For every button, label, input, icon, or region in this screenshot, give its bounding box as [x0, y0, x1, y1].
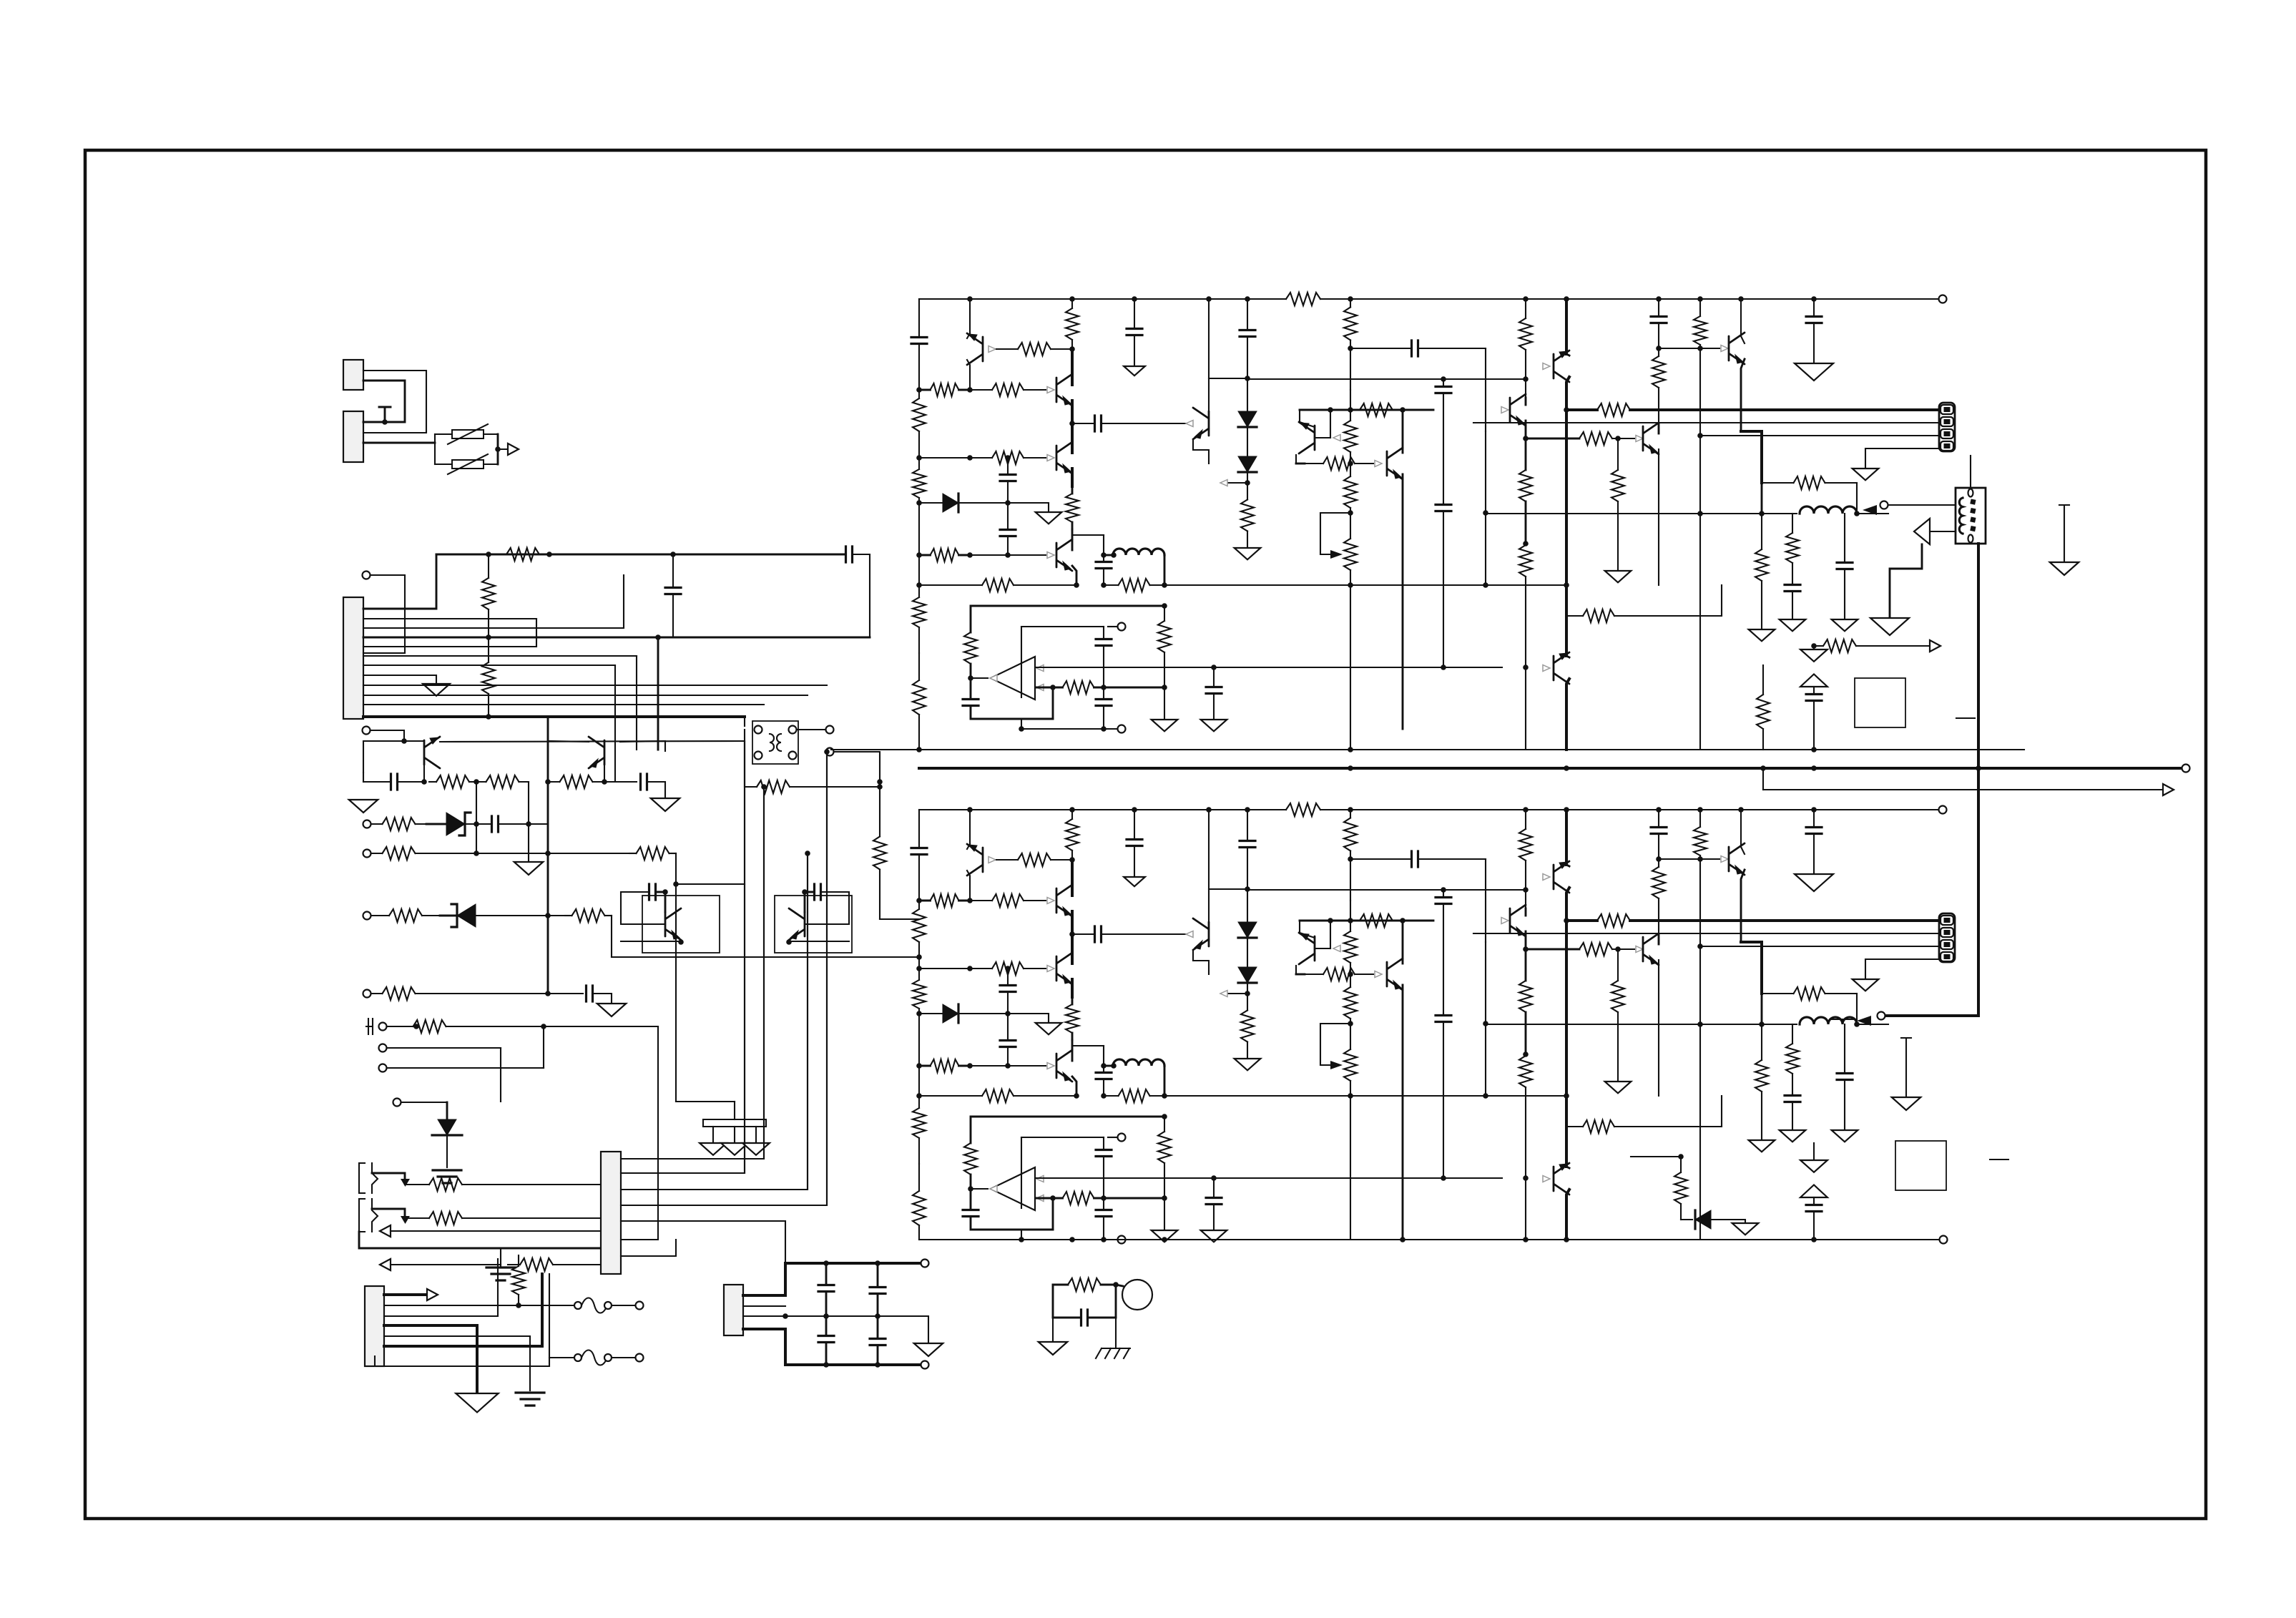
wire — [371, 730, 404, 741]
cap drop — [665, 588, 681, 594]
res (channel 1) — [1699, 345, 1701, 348]
relay box 2 — [1895, 1141, 1946, 1190]
wire — [1115, 1318, 1117, 1348]
row (channel 2) — [959, 900, 971, 902]
cap (channel 1) — [1443, 393, 1444, 504]
row (channel 1) — [1024, 457, 1046, 459]
fb res (channel 1) — [1063, 681, 1094, 694]
wire (channel 1) — [1330, 410, 1331, 438]
left rail res (channel 2) — [918, 1009, 920, 1014]
ground (channel 2) — [1780, 1130, 1806, 1142]
cap (channel 1) — [1000, 475, 1016, 481]
power rail (channel 2) — [1565, 810, 1568, 865]
junction (channel 2) — [1523, 946, 1529, 952]
res (channel 2) — [1658, 898, 1659, 934]
emitter (channel 2) — [1072, 1077, 1076, 1096]
wire (channel 2) — [1104, 1065, 1113, 1067]
transistor Q5 (channel 2) — [1056, 1050, 1072, 1082]
earth stub — [500, 1248, 501, 1268]
res (channel 1) — [1158, 621, 1171, 652]
cap (channel 2) — [1096, 1073, 1112, 1079]
transistor Q101 — [424, 737, 440, 768]
relay RY1 outline — [752, 721, 798, 764]
res (channel 2) — [1519, 829, 1532, 861]
cap (channel 2) — [1007, 1047, 1009, 1067]
supply bus resistor (channel 2) — [1286, 803, 1320, 816]
pot wire (channel 1) — [1320, 513, 1350, 554]
res (channel 1) — [1350, 570, 1351, 585]
cap (channel 1) — [1443, 511, 1444, 668]
junction — [545, 913, 551, 918]
res (channel 2) — [1247, 994, 1248, 1011]
junction — [401, 738, 407, 744]
row (channel 1) — [1164, 584, 1566, 586]
ground (channel 1) — [1780, 619, 1806, 631]
input row — [383, 847, 416, 860]
wire (channel 2) — [1525, 890, 1526, 908]
cap (channel 1) — [1651, 317, 1667, 323]
wire — [593, 994, 612, 1004]
rail res (channel 1) — [1071, 486, 1074, 494]
wire (channel 2) — [1700, 858, 1719, 860]
cap (channel 2) — [1240, 841, 1255, 848]
wire — [363, 371, 426, 433]
emitter (channel 2) — [1525, 931, 1527, 949]
collector (channel 2) — [1402, 921, 1404, 964]
capacitor C103 — [825, 1316, 828, 1336]
output wire (channel 1) — [971, 677, 988, 679]
wire — [1890, 544, 1922, 618]
dash — [1990, 1159, 2008, 1160]
wire — [446, 1102, 448, 1119]
wire — [476, 915, 565, 916]
junction (channel 2) — [967, 966, 973, 971]
pin4 wire — [363, 637, 870, 639]
terminal (channel 1) — [1118, 725, 1126, 733]
terminal — [363, 912, 371, 920]
res (channel 1) — [1344, 308, 1357, 340]
wire — [621, 1240, 676, 1256]
transistor Q9 (channel 2) — [1510, 905, 1526, 936]
cap (channel 1) — [1206, 687, 1222, 694]
terminal — [363, 850, 371, 858]
junction (channel 2) — [1615, 946, 1621, 952]
row (channel 1) — [959, 554, 971, 557]
emitter (channel 1) — [1402, 474, 1404, 729]
connector CN104 — [724, 1285, 743, 1335]
emitter (channel 2) — [1741, 870, 1745, 942]
wire pin4 — [384, 1325, 477, 1393]
cap (channel 2) — [1247, 848, 1248, 890]
wire — [391, 1230, 601, 1232]
rail res (channel 1) — [1071, 340, 1073, 349]
res (channel 1) — [1350, 299, 1351, 308]
transistor Q7 (channel 1) — [1299, 422, 1315, 453]
ground (channel 2) — [1124, 877, 1145, 886]
power rail (channel 1) — [1565, 410, 1568, 585]
wire — [398, 781, 424, 783]
cap (channel 2) — [1103, 1198, 1104, 1210]
ground — [456, 1393, 498, 1412]
terminal — [1880, 501, 1888, 509]
cap (channel 2) — [1443, 890, 1444, 898]
row (channel 2) — [1024, 900, 1046, 901]
cap (channel 1) — [1247, 337, 1248, 379]
wire — [498, 448, 508, 450]
decouple cap (channel 1) — [1134, 299, 1135, 329]
input wire (channel 2) — [1036, 1197, 1053, 1200]
terminal — [636, 1302, 644, 1310]
input wire (channel 1) — [1036, 687, 1053, 689]
resistor — [486, 775, 519, 788]
base arrow (channel 2) — [1333, 946, 1340, 952]
link — [676, 883, 745, 885]
cap (channel 1) — [1806, 317, 1822, 323]
wire — [440, 741, 745, 742]
parallel res (channel 2) — [1762, 993, 1794, 994]
junction — [474, 779, 479, 785]
res (channel 1) — [1519, 545, 1532, 577]
base arrow (channel 1) — [1543, 363, 1550, 370]
junction (channel 2) — [1483, 1021, 1488, 1026]
input row — [383, 987, 416, 1000]
cap row (channel 1) — [1412, 340, 1418, 356]
rail arrow (channel 2) — [1800, 1185, 1828, 1198]
diode D3 (channel 2) — [1238, 967, 1257, 983]
resistor run — [605, 915, 612, 916]
stem (channel 1) — [1813, 702, 1815, 750]
feedback row (channel 1) — [1014, 584, 1076, 586]
res (channel 2) — [1350, 851, 1351, 860]
cap (channel 1) — [1096, 562, 1112, 569]
res (channel 1) — [1525, 544, 1526, 545]
cap (channel 1) — [1436, 387, 1451, 393]
wire (channel 2) — [1856, 994, 1858, 1024]
capacitor C103 — [818, 1336, 834, 1343]
junction (channel 1) — [1759, 511, 1765, 516]
junction (channel 2) — [1697, 943, 1703, 949]
junction — [877, 779, 883, 785]
long sense (channel 2) — [1699, 1024, 1701, 1240]
relay pin — [755, 752, 762, 760]
transistor Q1 (channel 2) — [967, 844, 983, 876]
junction (channel 1) — [1564, 407, 1569, 413]
res (channel 1) — [1658, 348, 1659, 356]
stem (channel 1) — [1813, 646, 1815, 649]
base lead — [423, 765, 425, 782]
wire (channel 2) — [1247, 889, 1248, 922]
inductor L2 (channel 1) — [1800, 506, 1857, 514]
resistor run — [873, 837, 886, 870]
transistor Q3 (channel 1) — [1056, 442, 1072, 474]
res (channel 2) — [1344, 931, 1357, 963]
zener diode D103 — [438, 1119, 456, 1135]
wire (channel 1) — [1525, 667, 1526, 750]
wire — [621, 892, 665, 924]
wire — [621, 1221, 785, 1263]
parallel res (channel 2) — [1825, 993, 1858, 994]
base arrow (channel 2) — [988, 857, 996, 863]
VAS tail (channel 1) — [1350, 585, 1351, 750]
wire (channel 1) — [1792, 583, 1793, 585]
res (channel 1) — [1761, 514, 1762, 549]
diode D2 (channel 2) — [1238, 922, 1257, 938]
res (channel 2) — [1597, 914, 1630, 927]
parallel res (channel 2) — [1794, 987, 1825, 1000]
pin3 wire — [363, 575, 624, 628]
row (channel 2) — [1305, 974, 1323, 975]
inductor L1 (channel 1) — [1113, 549, 1164, 555]
cap (channel 2) — [1436, 1016, 1451, 1022]
stub — [1970, 456, 1971, 488]
wire (channel 2) — [1227, 993, 1247, 994]
terminal (channel 2) — [1939, 806, 1947, 814]
wire — [372, 1209, 405, 1219]
collector — [620, 741, 665, 751]
fuse F102 — [574, 1354, 582, 1361]
base arrow (channel 1) — [1721, 345, 1728, 352]
wire — [426, 823, 446, 825]
pin wire — [743, 1294, 785, 1297]
base arrow (channel 2) — [1543, 1176, 1550, 1182]
base arrow (channel 2) — [1047, 898, 1054, 904]
cap (channel 1) — [1247, 299, 1248, 330]
res (channel 2) — [1344, 818, 1357, 851]
cap (channel 2) — [1813, 834, 1815, 875]
capacitor C101 — [825, 1263, 828, 1285]
transistor Q11 (channel 1) — [1643, 423, 1659, 454]
row 861 (channel 1) — [1583, 609, 1614, 622]
junction (channel 1) — [1005, 455, 1011, 461]
junctions — [823, 1260, 829, 1266]
arrow row (channel 1) — [1814, 645, 1822, 647]
ground (channel 1) — [1036, 512, 1062, 524]
row (channel 1) — [1305, 463, 1323, 464]
ground (channel 2) — [1036, 1023, 1062, 1034]
conn row4 (channel 2) — [1865, 959, 1939, 979]
base res (channel 1) — [996, 348, 1018, 350]
ground — [1892, 1097, 1921, 1110]
wire — [621, 941, 681, 942]
wire — [476, 782, 477, 853]
junction — [1113, 1282, 1119, 1288]
row — [520, 1258, 553, 1271]
wire — [500, 1048, 501, 1102]
ground (channel 1) — [1605, 571, 1632, 582]
left rail res (channel 2) — [918, 1225, 920, 1240]
wire (channel 2) — [1485, 859, 1486, 942]
junction (channel 1) — [1523, 541, 1529, 546]
connector CN2 (channel 1) — [1939, 403, 1955, 451]
cap (channel 2) — [1436, 898, 1451, 904]
junction (channel 1) — [1328, 407, 1333, 413]
cap (channel 2) — [1806, 1205, 1822, 1212]
wire (channel 1) — [1300, 410, 1315, 427]
cap (channel 2) — [1007, 992, 1009, 1014]
junction (channel 1) — [967, 455, 973, 461]
wire — [548, 741, 589, 742]
pin6 wire — [363, 655, 637, 657]
junction (channel 2) — [1523, 887, 1529, 893]
base res (channel 2) — [1018, 853, 1051, 866]
jack J3 — [359, 1199, 378, 1232]
terminal — [1940, 1236, 1948, 1244]
row (channel 2) — [992, 894, 1024, 907]
rail res (channel 2) — [1066, 819, 1079, 850]
ground — [1732, 1223, 1759, 1235]
jack switch arrow — [401, 1216, 410, 1224]
row (channel 2) — [1323, 968, 1355, 981]
long sense (channel 1) — [1699, 348, 1701, 514]
res (channel 2) — [1350, 963, 1351, 974]
junction (channel 2) — [1348, 856, 1353, 862]
stem — [712, 1127, 714, 1143]
feedback row (channel 2) — [1014, 1095, 1076, 1097]
servo loop (channel 2) — [970, 1175, 972, 1210]
row 861 (channel 1) — [1566, 615, 1583, 617]
row — [446, 1026, 473, 1027]
collector (channel 2) — [1658, 934, 1660, 944]
junction (channel 1) — [1074, 582, 1079, 588]
jack switch arrow — [401, 1179, 410, 1187]
row — [462, 1184, 486, 1185]
junction (channel 1) — [1348, 582, 1353, 588]
wire (channel 1) — [1612, 438, 1634, 439]
emitter (channel 1) — [967, 360, 970, 390]
wire (channel 1) — [1857, 513, 1888, 514]
varistor RV1 — [452, 430, 484, 438]
row (channel 1) — [970, 554, 1046, 556]
junction — [545, 991, 551, 996]
wire (channel 1) — [1856, 483, 1858, 514]
transistor Q7 (channel 2) — [1299, 933, 1315, 964]
row (channel 2) — [958, 1013, 1008, 1014]
wire (channel 1) — [1631, 585, 1722, 616]
res (channel 2) — [1652, 867, 1665, 898]
resistor run — [1068, 1278, 1101, 1291]
res (channel 1) — [1611, 470, 1624, 501]
row (channel 1) — [992, 383, 1024, 396]
collector (channel 1) — [1071, 378, 1074, 385]
feedback row (channel 1) — [1119, 579, 1150, 592]
conn row3 (channel 2) — [1700, 946, 1939, 947]
wire — [621, 1026, 658, 1240]
wire (channel 2) — [1330, 921, 1331, 948]
wire — [621, 853, 808, 1190]
input row — [416, 993, 427, 994]
divider res — [482, 578, 495, 609]
base arrow (channel 1) — [1220, 480, 1227, 486]
power rail (channel 1) — [1565, 299, 1568, 354]
wire (channel 1) — [1227, 482, 1247, 484]
junction (channel 2) — [1697, 1021, 1703, 1027]
res (channel 2) — [1360, 914, 1393, 927]
wire — [834, 752, 880, 782]
base arrow (channel 1) — [1543, 665, 1550, 672]
resistor run — [1053, 1284, 1068, 1286]
res (channel 2) — [1761, 1024, 1762, 1060]
wire — [675, 853, 677, 884]
wire (channel 2) — [1021, 1230, 1022, 1240]
cap row (channel 1) — [1102, 423, 1191, 424]
decouple cap (channel 2) — [1134, 810, 1135, 840]
res (channel 1) — [1823, 639, 1856, 652]
left rail res (channel 1) — [918, 431, 920, 458]
res (channel 2) — [1350, 974, 1351, 987]
relay feed — [744, 717, 745, 726]
terminal (channel 2) — [1118, 1236, 1126, 1244]
ground — [1870, 618, 1909, 635]
wire (channel 2) — [1315, 948, 1330, 949]
cap (channel 1) — [1240, 330, 1255, 337]
row (channel 1) — [1355, 463, 1373, 464]
cap (channel 2) — [1000, 1041, 1016, 1047]
output arrow (channel 1) — [990, 675, 997, 682]
left rail (channel 1) — [918, 503, 920, 555]
resistor run — [1680, 1204, 1682, 1220]
wire — [1711, 1220, 1745, 1223]
resistor — [476, 781, 486, 783]
supply bus (channel 2) — [1320, 809, 1938, 810]
cap row (channel 1) — [1095, 416, 1102, 431]
signal line — [826, 752, 828, 1205]
stem (channel 1) — [1813, 687, 1815, 692]
cap drop — [672, 594, 674, 638]
emitter (channel 1) — [1071, 469, 1074, 486]
wire — [372, 1173, 405, 1182]
res (channel 2) — [1164, 1117, 1165, 1132]
speaker line thick — [919, 767, 2182, 770]
resistor run — [879, 870, 880, 920]
connector P2 housing — [343, 411, 363, 462]
top wire (channel 1) — [1021, 626, 1104, 627]
res (channel 1) — [1579, 432, 1612, 445]
supply bus resistor (channel 1) — [1286, 293, 1320, 305]
wire — [1052, 1318, 1054, 1342]
row (channel 1) — [919, 554, 931, 557]
row 530 (channel 2) — [1247, 889, 1526, 891]
row (channel 2) — [931, 894, 959, 907]
ground — [742, 1143, 770, 1155]
rail junctions (channel 1) — [916, 387, 922, 393]
speaker feed 2 — [1885, 1014, 1978, 1017]
pot arrow (channel 2) — [1330, 1061, 1343, 1069]
decouple cap (channel 1) — [1127, 329, 1142, 335]
junction (channel 2) — [1074, 1093, 1079, 1099]
wire (channel 2) — [1761, 994, 1763, 1024]
ground (channel 2) — [1795, 874, 1833, 891]
input row — [416, 853, 427, 854]
pin10 wire — [363, 695, 808, 696]
left rail res (channel 1) — [913, 469, 926, 498]
wire (channel 2) — [1164, 1198, 1165, 1230]
signal line — [763, 787, 765, 1159]
input row — [371, 853, 383, 854]
res (channel 2) — [1699, 855, 1701, 859]
emitter (channel 1) — [1072, 566, 1076, 585]
res (channel 1) — [1164, 606, 1165, 621]
emitter (channel 2) — [1658, 960, 1659, 1096]
long sense (channel 2) — [1699, 859, 1701, 1024]
row — [612, 956, 919, 958]
dash — [1956, 717, 1975, 719]
junction (channel 2) — [1348, 1093, 1353, 1099]
junction (channel 2) — [967, 898, 973, 903]
capacitor — [649, 884, 656, 900]
relay box — [1855, 678, 1905, 727]
cap (channel 2) — [1096, 1210, 1112, 1217]
cap row (channel 2) — [1102, 933, 1191, 935]
